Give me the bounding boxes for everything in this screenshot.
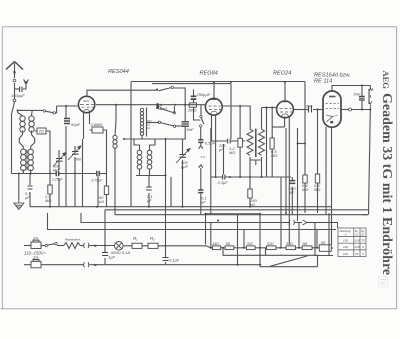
svg-text:REG84: REG84	[200, 71, 218, 77]
svg-text:µF: µF	[201, 199, 206, 204]
svg-text:T.A.: T.A.	[200, 155, 205, 159]
svg-text:44Ω: 44Ω	[212, 242, 219, 246]
svg-text:µµF: µµF	[181, 164, 189, 169]
svg-text:130: 130	[343, 239, 348, 243]
svg-text:MΩ: MΩ	[271, 153, 277, 158]
svg-text:52Ω: 52Ω	[267, 242, 274, 246]
svg-text:250µµF: 250µµF	[196, 92, 211, 97]
svg-text:2A: 2A	[32, 236, 38, 241]
svg-text:5kΩ: 5kΩ	[160, 106, 167, 111]
svg-text:MΩ: MΩ	[314, 187, 320, 192]
svg-text:RES044: RES044	[108, 69, 129, 75]
svg-text:µF: µF	[25, 195, 30, 200]
svg-text:R₂: R₂	[150, 236, 155, 241]
svg-text:2A: 2A	[32, 255, 38, 260]
svg-text:110: 110	[343, 252, 348, 256]
svg-text:50µF: 50µF	[71, 122, 81, 127]
svg-text:1,25µF: 1,25µF	[52, 178, 64, 182]
svg-text:MΩ: MΩ	[302, 187, 308, 192]
svg-text:R₁: R₁	[133, 236, 138, 241]
svg-text:RE 114: RE 114	[314, 79, 332, 85]
svg-text:AEG: AEG	[381, 71, 391, 90]
svg-text:9Ω: 9Ω	[226, 242, 231, 246]
svg-text:µµF: µµF	[53, 167, 61, 172]
svg-text:120: 120	[355, 239, 360, 243]
svg-text:150µµF: 150µµF	[11, 93, 25, 98]
svg-text:0,1µF: 0,1µF	[218, 180, 229, 185]
svg-text:Geadem 33 tG mit 1 Endröhre: Geadem 33 tG mit 1 Endröhre	[379, 93, 394, 275]
svg-text:120: 120	[343, 245, 348, 249]
svg-text:7kΩ: 7kΩ	[247, 242, 254, 246]
svg-text:75: 75	[362, 239, 366, 243]
svg-text:MΩ: MΩ	[229, 150, 235, 155]
svg-text:7Ω: 7Ω	[39, 129, 44, 134]
svg-text:500: 500	[75, 157, 82, 162]
svg-text:8Ω: 8Ω	[321, 241, 326, 245]
svg-text:1Ω: 1Ω	[147, 127, 150, 130]
svg-text:81Ω: 81Ω	[286, 242, 293, 246]
svg-text:8Ω: 8Ω	[303, 242, 308, 246]
svg-text:0,5µF: 0,5µF	[205, 141, 216, 146]
svg-text:5nF: 5nF	[187, 127, 194, 132]
svg-text:MΩ: MΩ	[45, 198, 51, 203]
svg-text:2MΩ: 2MΩ	[187, 107, 197, 112]
svg-text:3nF: 3nF	[306, 104, 313, 109]
svg-text:120: 120	[355, 245, 360, 249]
svg-text:75: 75	[355, 252, 359, 256]
svg-text:µF: µF	[290, 189, 295, 194]
svg-text:0,6MΩ: 0,6MΩ	[91, 122, 103, 127]
svg-text:Regelwiderst.: Regelwiderst.	[65, 238, 81, 242]
svg-text:kΩ: kΩ	[99, 199, 104, 204]
svg-text:0,75µF: 0,75µF	[92, 179, 104, 183]
svg-text:µF: µF	[219, 147, 224, 152]
svg-text:kΩ: kΩ	[250, 202, 255, 207]
svg-text:5nF: 5nF	[354, 91, 361, 96]
svg-text:RES: RES	[84, 99, 90, 103]
svg-text:1µF: 1µF	[108, 255, 116, 260]
svg-text:660Ω 0,1A: 660Ω 0,1A	[111, 250, 130, 255]
svg-text:µF: µF	[147, 198, 152, 203]
svg-text:0,1µF: 0,1µF	[169, 258, 180, 263]
svg-text:REO24: REO24	[273, 71, 291, 77]
